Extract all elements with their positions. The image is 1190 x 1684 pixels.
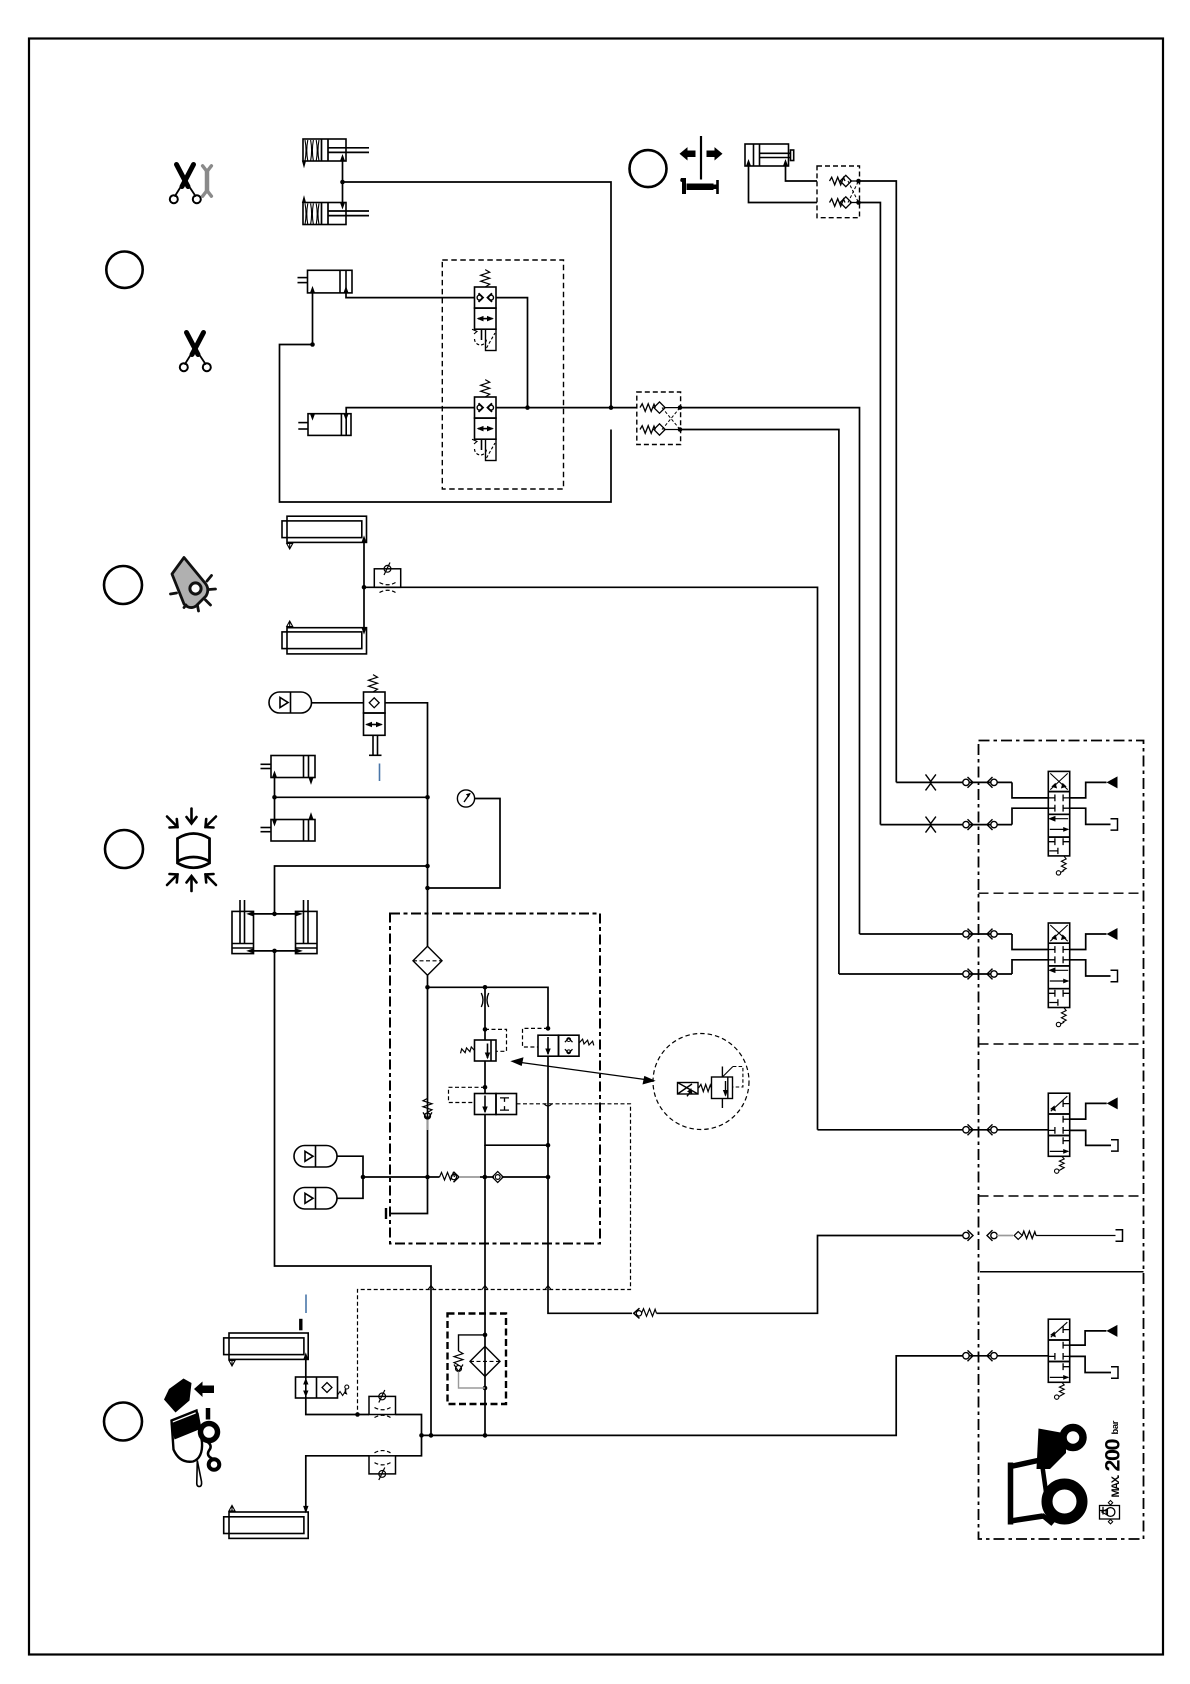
drain arrow lower (open) — [287, 621, 293, 627]
node F2 bottom — [483, 1386, 488, 1391]
lever s1 — [1107, 776, 1118, 788]
coupler pair s3 — [963, 1124, 997, 1135]
node CB upper — [856, 179, 861, 184]
wire between spring cylinders — [342, 161, 344, 203]
wire valve to main drop — [385, 703, 428, 947]
node join 1145 — [546, 1143, 551, 1148]
icon bar tool — [680, 178, 719, 194]
unloader valve — [364, 675, 386, 756]
wire P rail — [428, 987, 549, 1028]
mower cylinder upper — [224, 1333, 309, 1359]
section separator 1 — [979, 892, 1144, 894]
pilot check valve V1 — [472, 270, 496, 351]
pump symbol — [1100, 1501, 1120, 1524]
throttle restriction — [481, 993, 488, 1007]
lever s2 — [1107, 928, 1118, 940]
accumulator A — [294, 1146, 337, 1168]
wire s5 right to lever — [1070, 1331, 1107, 1345]
wire s2 line B — [839, 973, 1012, 975]
node flail — [362, 585, 367, 590]
node pilot lower — [483, 1085, 488, 1090]
wire cyl lower right port to line — [346, 408, 474, 414]
wire valve to node — [306, 1398, 369, 1415]
wire accumulators join — [337, 1156, 363, 1198]
wire UV branch down — [484, 1145, 486, 1245]
wire s3 right to plug — [1070, 1130, 1111, 1145]
tank symbol — [385, 1208, 387, 1219]
section separator 3 — [979, 1195, 1144, 1197]
node V join — [525, 405, 530, 410]
node scissor left — [310, 342, 315, 347]
pilot line relief (dashed) — [485, 1029, 507, 1051]
press cylinder upper — [261, 756, 316, 784]
wire SV down — [547, 1056, 549, 1177]
icon wrench (grey) — [203, 166, 212, 196]
wire V2 line to CB box — [496, 407, 637, 409]
cylinder scissor lower — [298, 414, 351, 436]
wire B to lower cylinder — [306, 1456, 369, 1512]
node A junction — [609, 405, 614, 410]
filter F2 diamond — [470, 1346, 500, 1376]
cylinder spring-return upper — [303, 139, 370, 167]
CB check upper — [640, 402, 680, 413]
tractor icon — [1011, 1428, 1084, 1525]
wire s1 right to plug — [1070, 808, 1111, 824]
wire s2 right to lever — [1070, 934, 1107, 950]
plug s3 — [1111, 1140, 1118, 1151]
wire F1 down — [427, 975, 429, 1177]
wire A to main node — [396, 1415, 422, 1436]
coupler pair s2B — [963, 969, 997, 980]
wire ram return long — [275, 951, 432, 1436]
wire s1 ports left — [1012, 782, 1048, 798]
relief valve RV1 — [461, 1040, 497, 1061]
icon scissors — [180, 333, 211, 372]
icon scissors with wrench — [170, 165, 201, 204]
wire s5 line — [896, 1355, 1048, 1357]
press cylinder lower — [261, 814, 316, 841]
CB check lower — [830, 197, 859, 208]
mower cylinder lower — [224, 1512, 309, 1538]
node CB lower — [856, 200, 861, 205]
valve block dashed box — [442, 260, 563, 489]
wire flail to section3 — [364, 587, 818, 1130]
wire T rail right — [502, 1176, 549, 1178]
cylinder top right — [745, 144, 794, 166]
motor cylinder upper — [282, 516, 367, 542]
node CB out lower — [678, 427, 683, 432]
node main bottom 431 — [429, 1433, 434, 1438]
CB pilot cross dashed — [848, 181, 859, 203]
break mark s1B — [926, 817, 936, 833]
icon spread arrows — [680, 136, 723, 180]
circle marker 5 — [104, 1403, 142, 1441]
spool valve section2 — [1048, 923, 1069, 1027]
drain arrow upper (open) — [287, 544, 293, 550]
wire bottom return B — [396, 1435, 422, 1455]
break mark s1A — [926, 774, 936, 790]
wire s2 line A — [860, 933, 1013, 935]
wire left loop to lower line — [280, 345, 612, 503]
circle marker 4 — [105, 830, 143, 868]
blue artifact mark — [305, 1295, 307, 1314]
detail pointer arrow — [512, 1058, 655, 1084]
restrictor check bypass — [374, 563, 400, 593]
wire between motors — [363, 542, 365, 627]
check valve on tank drop — [423, 1098, 432, 1119]
wire s1 right to lever — [1070, 782, 1107, 798]
svg-text:200: 200 — [1101, 1438, 1125, 1471]
detail spring — [699, 1084, 712, 1091]
svg-text:MAX.: MAX. — [1110, 1475, 1122, 1498]
shutoff valve — [296, 1377, 349, 1398]
filter F2 dashed box — [448, 1314, 507, 1405]
pilot line UV out (dashed) — [358, 1104, 631, 1415]
CB check upper — [830, 175, 859, 186]
wire LS to section4 — [657, 1236, 964, 1314]
motor cylinder lower — [282, 628, 367, 654]
restrictor check A — [369, 1390, 396, 1418]
node SV top — [546, 1026, 551, 1031]
spool valve section1 — [1048, 771, 1069, 875]
wire cyl left port to CB lower — [749, 166, 818, 203]
node T rail 427 — [425, 1175, 430, 1180]
blue artifact mark — [379, 764, 381, 782]
plug s1 — [1111, 819, 1118, 830]
node main 888 — [425, 886, 430, 891]
wire cyl right port to CB upper — [786, 166, 818, 181]
wire relief branch — [484, 987, 486, 1040]
cylinder spring-return lower — [303, 197, 370, 225]
coupler pair s1B — [963, 819, 997, 830]
spring check LS — [634, 1308, 657, 1318]
icon flail knife (grey) — [171, 558, 216, 612]
filter F1 — [413, 946, 442, 975]
node T rail 485 — [483, 1175, 488, 1180]
accumulator B — [294, 1188, 337, 1210]
wire s3 right to lever — [1070, 1103, 1107, 1119]
filter F2 bypass — [454, 1335, 485, 1388]
detail relief valve — [712, 1067, 743, 1109]
accumulator top — [269, 692, 312, 713]
wire s1 line B — [880, 824, 1012, 826]
wire cyl upper left port down — [312, 293, 314, 345]
check diamond on T rail — [492, 1171, 503, 1182]
drain arrow upper (open) — [229, 1361, 235, 1367]
wire V1 out to V2 line — [496, 298, 528, 408]
pilot line SV (dashed) — [523, 1028, 549, 1047]
node below F1 — [425, 985, 430, 990]
node ram top — [272, 912, 277, 917]
wire CB upper to section1 — [859, 181, 897, 782]
CB check lower — [640, 424, 680, 435]
node clamp junction — [340, 180, 345, 185]
node pilot join — [355, 1412, 360, 1417]
spool valve section3 — [1048, 1093, 1069, 1173]
lever s3 — [1107, 1097, 1118, 1109]
manifold dashed box — [390, 914, 600, 1244]
node main 797 — [425, 795, 430, 800]
wire clamp to node A — [343, 182, 612, 408]
wire main to ram pair — [275, 866, 428, 914]
pilot hop marks — [428, 1104, 552, 1290]
wire accumulator to valve — [312, 702, 364, 704]
wire s2 ports left — [1012, 934, 1048, 950]
wire CB lower to section2 T — [680, 430, 839, 975]
wire UV down — [485, 1115, 548, 1146]
spring check on T rail — [440, 1172, 459, 1182]
check spring s4 — [997, 1231, 1116, 1239]
node main bottom 485 — [483, 1433, 488, 1438]
section separator 4 (solid) — [980, 1271, 1144, 1273]
node pilot relief — [483, 1027, 488, 1032]
node cyl pair — [272, 795, 277, 800]
wire T rail — [363, 1176, 440, 1178]
circle marker 2 — [106, 252, 142, 288]
sequence valve SV — [538, 1035, 594, 1056]
wire F2 through — [484, 1245, 486, 1435]
wire gauge loop — [428, 799, 501, 889]
coupler pair s1A — [963, 777, 997, 788]
node main 866 — [425, 864, 430, 869]
tractor sections dash-dot box — [979, 741, 1144, 1540]
wire s5 right to plug — [1070, 1356, 1111, 1372]
node CB out upper — [678, 405, 683, 410]
node P rail mid — [483, 985, 488, 990]
node F2 top — [483, 1333, 488, 1338]
wire s3 line — [818, 1129, 1049, 1131]
black tick — [299, 1319, 302, 1331]
label MAX 200 bar — [1101, 1420, 1125, 1497]
wire CB upper to section2 P — [680, 408, 860, 934]
drain arrow lower (open) — [229, 1505, 235, 1511]
wire s2 right to plug — [1070, 960, 1111, 976]
section separator 2 — [979, 1043, 1144, 1045]
plug s2 — [1111, 970, 1118, 981]
node accu — [361, 1175, 366, 1180]
icon press (bale with arrows) — [167, 809, 216, 892]
wire LS down to spring check line — [548, 1177, 632, 1313]
node main bottom left — [419, 1433, 424, 1438]
wire main bottom to section5 — [422, 1356, 964, 1436]
coupler pair s5 — [963, 1350, 997, 1361]
detail circle (dashed) — [653, 1034, 749, 1130]
wire RV1 down — [484, 1061, 486, 1094]
unloading valve UV — [475, 1094, 517, 1115]
wire CB lower to section1 — [859, 203, 881, 825]
detail solenoid box — [678, 1083, 699, 1097]
gauge — [457, 790, 474, 807]
grey segment below check — [427, 1120, 429, 1131]
wire s1 line A — [896, 781, 1012, 783]
coupler pair s4 — [963, 1230, 997, 1241]
wire cyl to shutoff valve — [305, 1359, 307, 1377]
counterbalance dashed box — [637, 392, 681, 445]
plug s4 — [1116, 1230, 1123, 1241]
grey segment T rail — [459, 1176, 480, 1178]
pilot line lower valve (dashed) — [449, 1087, 486, 1102]
restrictor check B — [369, 1451, 396, 1480]
coupler pair s2A — [963, 929, 997, 940]
spool valve section5 — [1048, 1319, 1069, 1399]
wire cyl upper right port to valve V1 — [346, 293, 475, 298]
wire pair to main — [275, 796, 428, 798]
circle marker 3 — [104, 566, 142, 604]
counterbalance dashed box top — [817, 166, 860, 218]
CB pilot cross dashed — [662, 408, 680, 430]
wire cylinders manifold — [274, 778, 276, 820]
ram cylinder right — [296, 900, 318, 954]
circle marker 1 — [630, 150, 667, 187]
node T rail 548 — [546, 1175, 551, 1180]
node ram bottom — [272, 949, 277, 954]
lever s5 — [1106, 1325, 1117, 1337]
icon mower head — [164, 1379, 219, 1487]
plug s5 — [1111, 1367, 1118, 1378]
wire ram top line — [254, 913, 296, 915]
wire ram bottom line — [254, 950, 296, 952]
cylinder scissor upper — [298, 270, 353, 293]
ram cylinder left — [232, 900, 254, 954]
svg-text:bar: bar — [1110, 1420, 1121, 1434]
pilot check valve V2 — [472, 380, 496, 461]
wire tank branch — [390, 1177, 428, 1214]
